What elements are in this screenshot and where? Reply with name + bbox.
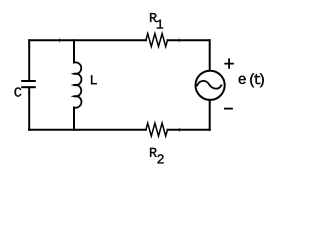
label e(t) — [239, 76, 246, 84]
label L — [91, 75, 97, 84]
wire left vertical lower — [28, 87, 30, 130]
wire top-left segment — [29, 39, 146, 41]
wire inductor branch bottom stub — [73, 108, 75, 130]
capacitor C1 top plate — [22, 80, 35, 82]
wire top-right segment — [168, 39, 210, 41]
source U1 circle — [196, 71, 225, 100]
wire bottom segment right — [168, 129, 210, 131]
wire bottom segment left — [29, 129, 146, 131]
junction tick top-left — [59, 39, 61, 42]
label R2 — [150, 148, 157, 157]
junction tick top-right — [178, 39, 180, 42]
wire inductor branch top stub — [73, 40, 75, 62]
capacitor C1 bottom plate — [22, 86, 35, 88]
label R1 — [150, 13, 157, 22]
wire left vertical upper — [28, 40, 30, 81]
source U1 sine wave — [197, 81, 221, 89]
minus sign — [225, 108, 232, 110]
junction tick bottom-right — [178, 128, 180, 131]
wire right vertical lower — [209, 100, 211, 130]
resistor R2 — [146, 123, 168, 136]
wire right vertical upper — [209, 40, 211, 70]
resistor R1 — [146, 34, 168, 47]
inductor L coil — [74, 62, 81, 107]
label C — [15, 87, 22, 96]
plus sign — [225, 59, 233, 68]
